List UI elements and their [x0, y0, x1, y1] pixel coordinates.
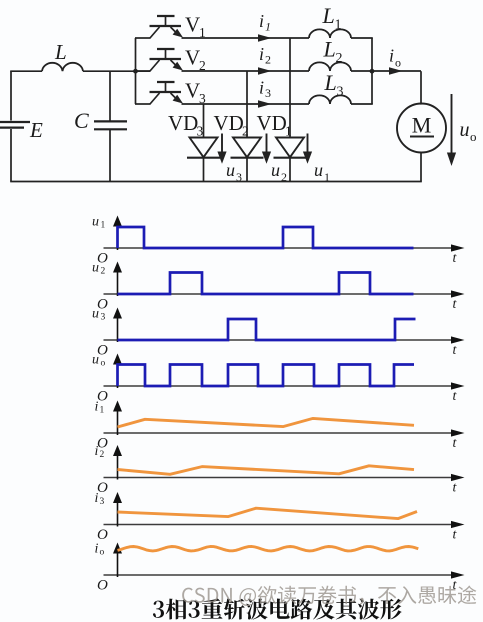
inductor L1: [309, 29, 351, 38]
svg-text:u: u: [460, 119, 470, 141]
wire row 1: [182, 37, 310, 39]
wire row 3: [182, 103, 310, 105]
svg-text:u: u: [92, 261, 99, 276]
wire left vertical from source E: [10, 71, 12, 181]
wire VD1 column: [289, 38, 291, 182]
voltage arrow uo: [451, 94, 453, 153]
svg-text:1: 1: [101, 221, 106, 231]
wire right bus: [371, 38, 373, 104]
axis i3: [104, 524, 456, 526]
voltage arrow u2: [266, 134, 268, 153]
svg-text:u: u: [92, 353, 99, 368]
node junction dot output: [370, 69, 375, 74]
svg-text:2: 2: [336, 51, 343, 66]
current arrow i3: [258, 100, 272, 107]
svg-text:2: 2: [265, 53, 271, 67]
wire row 1 right: [351, 37, 373, 39]
voltage source E: [0, 121, 30, 123]
axis u3: [104, 339, 456, 341]
wire left bus for switches: [135, 38, 137, 104]
svg-text:u: u: [92, 307, 99, 322]
wire output io: [372, 70, 421, 72]
svg-text:o: o: [470, 129, 477, 144]
diode VD3: [187, 138, 220, 158]
wire row 2: [182, 70, 310, 72]
svg-text:2: 2: [242, 124, 249, 139]
svg-text:E: E: [29, 118, 43, 142]
wire row 3 right: [351, 103, 373, 105]
svg-text:3: 3: [265, 86, 271, 100]
inductor L2: [309, 62, 351, 71]
watermark CSDN: [182, 586, 476, 606]
svg-text:2: 2: [281, 170, 287, 184]
svg-text:O: O: [97, 527, 108, 543]
svg-text:M: M: [412, 113, 432, 138]
svg-text:i: i: [259, 44, 264, 64]
waveform trace i1: [118, 418, 415, 427]
svg-text:i: i: [259, 11, 264, 31]
svg-text:O: O: [97, 389, 108, 405]
svg-text:1: 1: [265, 20, 271, 34]
wire motor bottom: [420, 152, 422, 182]
svg-text:VD: VD: [168, 111, 198, 135]
svg-text:o: o: [101, 359, 106, 369]
inductor L3: [309, 95, 351, 104]
caption 3相3重斩波电路及其波形: [153, 598, 402, 619]
svg-text:V: V: [185, 79, 200, 103]
svg-text:V: V: [185, 13, 200, 37]
waveform trace io ripple: [118, 547, 419, 551]
transistor switch V2: [135, 49, 181, 71]
svg-text:i: i: [95, 542, 99, 557]
svg-text:u: u: [314, 160, 323, 180]
axis u1: [104, 247, 456, 249]
waveform trace u2: [118, 273, 414, 295]
svg-text:o: o: [395, 56, 401, 70]
wire top rail: [10, 70, 150, 72]
svg-text:2: 2: [101, 267, 106, 277]
svg-text:3: 3: [101, 313, 106, 323]
capacitor C: [109, 71, 111, 181]
svg-text:1: 1: [324, 170, 330, 184]
motor M: [397, 104, 446, 153]
svg-text:3: 3: [197, 124, 204, 139]
wire motor top: [420, 71, 422, 104]
svg-text:VD: VD: [214, 111, 244, 135]
axis uo: [104, 385, 456, 387]
inductor L: [42, 63, 83, 71]
node junction dot on rail: [133, 69, 138, 74]
svg-text:u: u: [92, 215, 99, 230]
wire bottom rail: [10, 181, 422, 183]
svg-text:L: L: [323, 37, 336, 62]
svg-text:L: L: [54, 40, 67, 64]
axis i1: [104, 432, 456, 434]
voltage arrow u3: [221, 134, 223, 153]
waveform trace uo: [118, 365, 415, 387]
svg-text:3: 3: [100, 497, 105, 507]
axis i2: [104, 477, 456, 479]
axis u2: [104, 293, 456, 295]
axis io: [104, 574, 456, 576]
svg-text:C: C: [74, 108, 89, 133]
svg-text:i: i: [95, 400, 99, 415]
svg-text:i: i: [95, 444, 99, 459]
waveform trace i2: [118, 466, 415, 475]
wire VD2 column: [246, 71, 248, 182]
svg-text:3: 3: [337, 85, 344, 100]
svg-text:O: O: [97, 480, 108, 496]
svg-text:O: O: [97, 578, 108, 594]
current arrow i1: [258, 34, 272, 41]
svg-text:i: i: [95, 491, 99, 506]
transistor switch V3: [135, 82, 181, 104]
svg-text:L: L: [324, 70, 337, 95]
svg-text:3: 3: [236, 170, 242, 184]
svg-text:i: i: [389, 46, 394, 66]
waveform trace i3: [118, 508, 418, 518]
diode VD2: [231, 138, 264, 158]
current arrow i2: [258, 67, 272, 74]
svg-text:1: 1: [100, 406, 105, 416]
wire VD3 column: [203, 104, 205, 182]
voltage arrow u1: [307, 134, 309, 153]
svg-text:i: i: [259, 78, 264, 98]
svg-text:2: 2: [100, 450, 105, 460]
waveform trace u3: [118, 319, 416, 340]
svg-text:o: o: [100, 548, 105, 558]
svg-text:V: V: [185, 46, 200, 70]
svg-text:1: 1: [335, 18, 342, 33]
wire row 2 right: [351, 70, 373, 72]
svg-text:u: u: [271, 160, 280, 180]
transistor switch V1: [135, 16, 181, 38]
svg-text:u: u: [226, 160, 235, 180]
svg-text:VD: VD: [257, 111, 287, 135]
waveform trace u1: [118, 227, 414, 248]
svg-text:1: 1: [285, 124, 292, 139]
diode VD1: [274, 138, 307, 158]
svg-text:L: L: [322, 3, 335, 28]
